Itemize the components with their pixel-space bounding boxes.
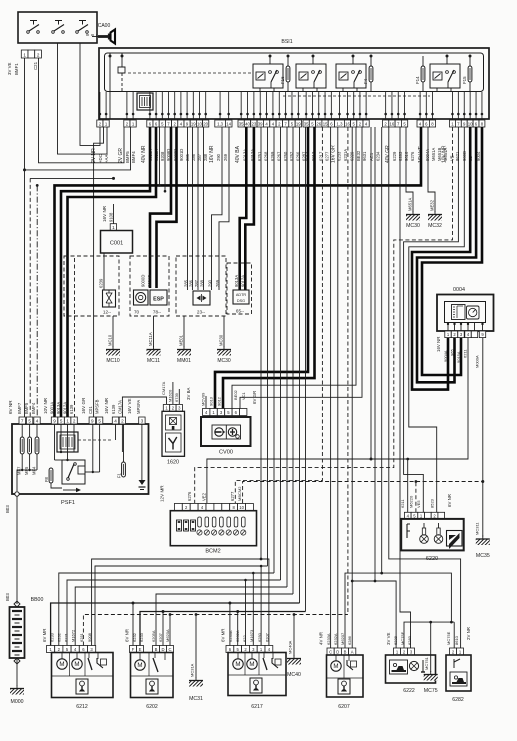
BSI1 connector icon: [137, 93, 153, 110]
svg-text:MF4: MF4: [32, 466, 37, 475]
svg-text:9001A: 9001A: [50, 402, 55, 414]
thick wire 9001A BSI to PSF1: [55, 127, 422, 417]
fuse F14: [415, 56, 425, 92]
wires M1620 6739: [173, 382, 179, 404]
wire 6286: [305, 127, 307, 612]
svg-text:MCV09: MCV09: [201, 392, 206, 406]
svg-text:MC10: MC10: [108, 334, 113, 346]
svg-text:MC11A: MC11A: [148, 332, 153, 346]
svg-text:40V NR: 40V NR: [141, 145, 147, 163]
svg-text:1: 1: [112, 225, 115, 230]
svg-text:C21: C21: [33, 61, 38, 70]
svg-text:9: 9: [53, 418, 56, 423]
wire M6220 dashed: [243, 482, 483, 504]
BSI1 pin row: [97, 92, 485, 127]
door lock unit 6217: [228, 653, 286, 711]
svg-text:35: 35: [239, 121, 244, 126]
wire 6269: [273, 127, 275, 573]
svg-text:9012A: 9012A: [63, 402, 68, 414]
svg-text:35: 35: [304, 121, 309, 126]
svg-text:MC11: MC11: [147, 358, 160, 364]
BSI1 internal wire left: [109, 53, 112, 119]
harness line y566: [95, 565, 268, 653]
masse dashed line: [83, 613, 348, 645]
svg-text:9108: 9108: [109, 212, 114, 222]
6207 pin row: [327, 648, 356, 655]
ground MC32: [428, 199, 442, 229]
svg-text:16V NR: 16V NR: [436, 337, 441, 352]
svg-text:6207: 6207: [338, 704, 350, 710]
svg-text:9013A: 9013A: [234, 275, 239, 287]
steering module CV00: [201, 417, 251, 456]
wire 6233 to 6207: [330, 127, 332, 651]
svg-text:BCM2: BCM2: [205, 549, 220, 555]
svg-text:BMF5: BMF5: [24, 402, 29, 414]
svg-text:B: B: [155, 647, 158, 652]
6282 pin row: [450, 648, 464, 655]
svg-text:9: 9: [91, 418, 94, 423]
svg-text:MC31: MC31: [189, 696, 203, 702]
BSI1 wire labels: [91, 145, 481, 163]
door lock unit 6212 labels: [42, 629, 92, 642]
door lock unit 6212: [52, 653, 114, 711]
harness 6222 pin2 MC75 6282: [404, 621, 454, 651]
svg-text:CM17A: CM17A: [161, 381, 166, 395]
svg-text:MC75: MC75: [424, 688, 438, 694]
harness line y573: [59, 572, 274, 646]
wire BMF4 to PSF1 pin4: [36, 184, 39, 417]
battery BB00: [10, 601, 25, 686]
svg-text:E: E: [139, 647, 142, 652]
svg-text:M: M: [74, 661, 79, 668]
svg-text:6V NR: 6V NR: [8, 400, 13, 414]
svg-text:M6207: M6207: [340, 632, 345, 645]
svg-text:9013: 9013: [209, 396, 214, 406]
0004 wire labels: [436, 337, 480, 368]
svg-text:BMF4: BMF4: [31, 402, 36, 414]
svg-text:MPSFA: MPSFA: [136, 400, 141, 414]
svg-text:8621: 8621: [455, 151, 460, 161]
relay 4 in BSI1: [430, 55, 460, 93]
svg-text:ADTR: ADTR: [236, 293, 247, 297]
svg-text:BE32: BE32: [356, 150, 361, 161]
svg-text:0004: 0004: [453, 287, 465, 293]
svg-text:6277: 6277: [324, 151, 329, 161]
door lock unit 6202 labels: [125, 629, 171, 642]
svg-text:M651A: M651A: [408, 198, 413, 211]
svg-text:VE5: VE5: [416, 500, 421, 508]
thick wire 9013A BSI to PSF1: [61, 127, 150, 417]
BSI1 body control unit box: [99, 48, 489, 119]
svg-text:6283: 6283: [407, 635, 412, 645]
wire M651A to MC30: [406, 127, 413, 212]
switch unit 1620: [162, 411, 185, 465]
switch unit 6222 labels: [386, 631, 412, 645]
BSI1 internal dashed links: [107, 56, 470, 96]
svg-text:M000A: M000A: [475, 355, 480, 368]
ground MC30: [406, 198, 420, 229]
svg-text:9001D: 9001D: [147, 275, 152, 287]
svg-text:6V MR: 6V MR: [221, 629, 226, 642]
switch unit 6282 labels: [446, 627, 471, 645]
svg-text:16V GR: 16V GR: [81, 397, 86, 414]
dashed box 23: [176, 256, 226, 316]
PSF1 fuse F1: [117, 424, 126, 478]
wire CA00 pin2 to BSI: [39, 58, 125, 163]
label C21: [33, 61, 38, 70]
svg-text:1620: 1620: [167, 460, 179, 466]
svg-text:6211: 6211: [463, 349, 468, 358]
svg-text:F: F: [132, 647, 135, 652]
wire 6239: [99, 253, 105, 290]
svg-text:4: 4: [114, 418, 117, 423]
label 3V VE BMF1: [7, 62, 19, 75]
svg-text:9013A: 9013A: [56, 402, 61, 414]
svg-text:70: 70: [134, 310, 140, 315]
boot light switch 6222: [386, 655, 436, 694]
svg-text:6207: 6207: [265, 632, 270, 642]
ignition switch CA00: [18, 12, 97, 43]
svg-text:VC1: VC1: [241, 391, 246, 400]
svg-text:MC75F: MC75F: [400, 631, 405, 645]
wire 6234: [374, 127, 377, 582]
ground MC31: [189, 614, 203, 702]
svg-text:6239: 6239: [99, 278, 104, 288]
svg-text:F14: F14: [415, 76, 420, 84]
svg-text:2: 2: [121, 418, 124, 423]
PSF1 maxi fuse block: [57, 432, 78, 452]
svg-text:M: M: [249, 661, 254, 668]
wire 6266: [299, 127, 301, 603]
icon solenoid valve 12: [103, 290, 116, 315]
svg-text:16: 16: [390, 121, 395, 126]
ground MC75: [424, 622, 438, 694]
labels 285 286 287 288 290 269: [184, 279, 221, 287]
svg-text:15: 15: [323, 121, 328, 126]
ground MC10: [106, 316, 120, 364]
svg-text:16V VE: 16V VE: [127, 398, 132, 414]
svg-text:6232: 6232: [57, 632, 62, 642]
svg-text:6276: 6276: [187, 491, 192, 501]
wire AC1: [370, 127, 373, 461]
svg-text:F4: F4: [363, 78, 368, 84]
wire BE02 to CV00: [232, 127, 356, 409]
relay 1 in BSI1: [253, 55, 283, 93]
svg-text:19: 19: [296, 121, 301, 126]
wire 6250: [286, 127, 288, 587]
svg-text:965: 965: [450, 349, 455, 356]
wire MCV09: [205, 396, 207, 408]
svg-text:9008: 9008: [87, 632, 92, 642]
PSF1 wire labels: [8, 397, 141, 414]
svg-text:2: 2: [37, 52, 40, 57]
label B03 upper: [5, 505, 10, 513]
wire CA00 pin1 to BSI: [23, 58, 131, 171]
svg-text:6221: 6221: [64, 632, 69, 642]
PSF1 bottom arrow marker: [63, 488, 81, 492]
ground MC30: [217, 316, 231, 364]
svg-text:39: 39: [258, 121, 263, 126]
svg-text:269: 269: [223, 153, 228, 161]
svg-text:A: A: [351, 649, 354, 654]
wire 6229: [380, 127, 383, 574]
wire VC1 to CV00: [240, 127, 362, 409]
CV00 pin row: [203, 409, 247, 416]
svg-text:MC35: MC35: [476, 553, 490, 559]
wire B03 PSF1 to battery: [16, 496, 18, 604]
wire BSI pin9 8523 to 6220: [409, 127, 465, 512]
svg-text:6139: 6139: [69, 404, 74, 414]
svg-text:C01: C01: [88, 406, 93, 414]
instrument cluster 0004: [437, 295, 494, 332]
icon ABS pump: [134, 290, 149, 315]
svg-text:6251: 6251: [79, 632, 84, 642]
svg-text:6V NR: 6V NR: [125, 629, 130, 642]
BCM2 wire labels: [160, 485, 243, 502]
svg-text:78--: 78--: [153, 310, 162, 315]
harness line y580: [67, 579, 281, 646]
svg-text:6232A: 6232A: [333, 633, 338, 645]
svg-text:5: 5: [98, 418, 101, 423]
svg-text:M: M: [333, 663, 338, 670]
svg-text:2V GR: 2V GR: [118, 148, 124, 163]
svg-text:6231A: 6231A: [343, 149, 348, 161]
PSF1 internal wires: [17, 424, 122, 491]
dashed box 12: [64, 256, 119, 316]
connector C21 pins 1 2: [21, 50, 41, 58]
svg-text:40: 40: [245, 121, 250, 126]
svg-text:CA00: CA00: [98, 23, 111, 29]
svg-text:2: 2: [73, 418, 76, 423]
svg-text:6250: 6250: [257, 632, 262, 642]
svg-text:6232: 6232: [132, 632, 137, 642]
wire 9616 to 6282 pin1: [389, 127, 461, 651]
svg-text:12V MR: 12V MR: [160, 485, 165, 502]
svg-text:6139: 6139: [111, 404, 116, 414]
connector C001 pin 1: [110, 224, 116, 231]
svg-text:6229: 6229: [392, 151, 397, 161]
svg-text:VE2: VE2: [201, 492, 206, 501]
svg-text:M651A: M651A: [431, 148, 436, 161]
icon ESP: [150, 290, 167, 315]
wires 285 286 287 288: [188, 127, 204, 290]
svg-text:10: 10: [239, 505, 244, 510]
door lock unit 6202: [131, 653, 174, 711]
svg-text:9001D: 9001D: [179, 149, 184, 161]
svg-text:6202: 6202: [146, 704, 158, 710]
wires 9013A 9012A to ABS unit: [240, 127, 247, 290]
PSF1 fuses MF7 MF5 MF4: [17, 424, 39, 475]
svg-text:23--: 23--: [197, 310, 206, 315]
svg-text:MC30: MC30: [219, 334, 224, 346]
svg-text:622: 622: [242, 635, 247, 642]
labels 9013A 9012A: [234, 275, 245, 287]
svg-text:MC30: MC30: [406, 223, 420, 229]
wire M6220 riser: [415, 480, 418, 512]
6220 wire labels: [400, 494, 452, 508]
svg-text:+AA: +AA: [104, 155, 109, 163]
BCM2 pin row: [174, 504, 253, 511]
harness line y594: [156, 594, 293, 646]
svg-text:M: M: [59, 661, 64, 668]
svg-text:6211: 6211: [400, 499, 405, 508]
svg-text:10: 10: [468, 121, 473, 126]
svg-text:B03: B03: [5, 505, 10, 513]
svg-text:5: 5: [60, 418, 63, 423]
svg-text:14: 14: [226, 121, 231, 126]
svg-text:286: 286: [191, 153, 196, 161]
svg-text:MC40: MC40: [287, 672, 301, 678]
svg-text:ME32: ME32: [430, 199, 435, 211]
svg-text:6282: 6282: [452, 697, 464, 703]
svg-text:5: 5: [28, 418, 31, 423]
wire 290: [212, 127, 223, 290]
feed line y603: [51, 602, 300, 646]
wire CA00 switch b to BSI: [80, 43, 100, 145]
thick wire 9012A BSI to PSF1: [68, 127, 157, 417]
svg-text:D: D: [336, 649, 339, 654]
wire 6252: [292, 127, 294, 594]
svg-text:MC30: MC30: [217, 358, 231, 364]
svg-text:6233: 6233: [336, 151, 341, 161]
wire 6251: [260, 127, 263, 560]
relay 3 in BSI1: [336, 55, 366, 93]
svg-text:40V BA: 40V BA: [235, 145, 241, 163]
interior fusebox BCM2: [170, 511, 256, 555]
ground MC11: [147, 316, 161, 364]
svg-text:290: 290: [208, 279, 213, 287]
svg-text:7: 7: [21, 418, 24, 423]
wire 9108: [113, 204, 115, 224]
wire C01: BSI to PSF1 pin9: [94, 127, 104, 417]
svg-text:1: 1: [66, 418, 69, 423]
svg-text:6V MR: 6V MR: [42, 629, 47, 642]
wire BMF7 to PSF1 pin7: [24, 170, 26, 417]
svg-text:9000D: 9000D: [141, 275, 146, 287]
thick wire BSI pin6 to 0004 pin2: [417, 127, 476, 382]
svg-text:3V VE: 3V VE: [7, 62, 12, 75]
svg-text:10V NR: 10V NR: [441, 145, 447, 163]
labels 9000D 9001D: [141, 275, 153, 287]
svg-text:M: M: [137, 662, 142, 669]
svg-text:4: 4: [36, 418, 39, 423]
svg-text:6217: 6217: [251, 704, 263, 710]
svg-text:12--: 12--: [103, 310, 112, 315]
svg-text:6233A: 6233A: [228, 630, 233, 642]
svg-text:10V NR: 10V NR: [43, 397, 48, 414]
svg-text:MC31A: MC31A: [190, 663, 195, 677]
svg-text:16V NR: 16V NR: [209, 145, 215, 163]
svg-text:6205A: 6205A: [151, 630, 156, 642]
svg-text:1: 1: [23, 52, 26, 57]
svg-text:C: C: [168, 647, 171, 652]
wire 6276 dashed from BSI: [195, 127, 453, 503]
svg-text:VE: VE: [449, 155, 454, 161]
svg-text:3V BA: 3V BA: [186, 387, 191, 400]
terminal B03: [15, 492, 19, 496]
wire 6231A to 6207: [337, 127, 339, 651]
6222 pin row: [394, 648, 415, 655]
svg-text:6234: 6234: [375, 151, 380, 161]
svg-text:MC32: MC32: [428, 223, 442, 229]
PSF1 fuse F8: [44, 468, 53, 483]
svg-text:ME01: ME01: [179, 334, 184, 346]
svg-text:CM17A: CM17A: [118, 400, 123, 414]
svg-text:16V NR: 16V NR: [102, 205, 107, 222]
svg-text:B03: B03: [5, 593, 10, 601]
wire CA00 switch a to BSI: [58, 43, 108, 154]
harness line y587: [75, 587, 287, 646]
PSF1 internal relay: [62, 460, 85, 484]
svg-text:6277: 6277: [230, 491, 235, 501]
diagnostic socket C001: [101, 231, 133, 254]
svg-text:6222: 6222: [403, 688, 415, 694]
svg-text:287: 287: [194, 279, 199, 287]
fuse F16: [280, 55, 290, 93]
svg-text:23: 23: [252, 121, 257, 126]
svg-text:M1672: M1672: [71, 629, 76, 642]
PSF1 ground pin3: [139, 424, 146, 490]
svg-text:MC75E: MC75E: [446, 631, 451, 645]
thick wire BSI pin10 to 0004 pin1: [412, 127, 470, 390]
svg-text:M1673: M1673: [249, 629, 254, 642]
wire 9008D stub: [164, 127, 167, 193]
svg-text:269: 269: [215, 279, 220, 287]
harness line 573 right to 6282: [345, 573, 451, 651]
svg-text:288: 288: [200, 279, 205, 287]
PSF1 pin row: [19, 417, 145, 424]
wire 6211 riser to 6220: [407, 459, 409, 512]
harness 6207 pinA to 6222 pin1: [351, 127, 396, 651]
wire 6277 dashed BSI to BCM2: [235, 127, 322, 503]
wire VE2 6211 bus: [207, 338, 468, 503]
wire 6267: [280, 127, 282, 580]
connector 1620 pins: [163, 405, 182, 412]
svg-text:CV00: CV00: [219, 450, 233, 456]
6220 pin row: [404, 512, 444, 519]
wire M000A to MC35: [481, 338, 484, 537]
svg-text:6228: 6228: [393, 635, 398, 645]
svg-text:BE02: BE02: [233, 389, 238, 400]
svg-text:6232A: 6232A: [235, 630, 240, 642]
svg-text:BSI1: BSI1: [281, 39, 292, 45]
boot lock unit 6207: [327, 655, 364, 710]
label B03 lower: [5, 593, 10, 601]
feed line y611.5: [140, 610, 306, 646]
svg-text:10: 10: [197, 121, 202, 126]
svg-text:9004A: 9004A: [443, 350, 448, 362]
svg-text:26: 26: [316, 121, 321, 126]
6202 pin row: [130, 646, 174, 653]
CV00 labels: [201, 389, 258, 406]
label 16V NR 9108: [102, 205, 114, 222]
svg-text:F15: F15: [462, 76, 467, 84]
BSI1 internal step wire: [118, 53, 125, 92]
ground M000: [10, 685, 24, 705]
svg-text:16V NR: 16V NR: [104, 397, 109, 414]
relay 2 in BSI1: [296, 55, 326, 93]
ground MC35: [475, 522, 490, 559]
svg-text:MF5: MF5: [24, 466, 29, 475]
svg-text:MC40A: MC40A: [288, 640, 293, 654]
6212 pin row: [47, 646, 96, 653]
thick wire 9001D to ESP: [157, 127, 177, 288]
svg-text:MPSFB: MPSFB: [95, 399, 100, 414]
svg-text:9208: 9208: [160, 151, 165, 161]
svg-text:F8: F8: [44, 476, 49, 482]
thick wire 9012 BSI to CV00: [223, 127, 315, 409]
dashed box ESP 70 78: [130, 256, 169, 316]
